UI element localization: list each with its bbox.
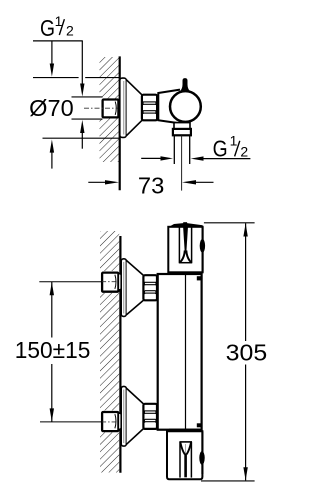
dim 305 arrow up <box>243 223 247 236</box>
lower union nipple barrel <box>119 413 122 429</box>
top knob box (front view) <box>168 227 202 272</box>
bottom knob blade left line <box>179 442 181 478</box>
dim 305 line lower segment <box>245 365 247 481</box>
hex nut (top view) <box>142 95 157 121</box>
outlet collar nut (top view) <box>173 129 191 135</box>
arrowhead down G 1/2 to pipe top <box>80 84 84 97</box>
Ø70 upper arrow (down) <box>51 41 53 64</box>
dim 150±15 line lower segment <box>51 364 53 422</box>
G 1/2 right label arrow right side <box>191 156 204 160</box>
bottom knob box (front view) <box>167 431 202 479</box>
lower escutcheon highlight line <box>123 390 125 443</box>
lower escutcheon flange (front view) <box>121 386 126 446</box>
top knob grip foot baseline <box>179 262 192 264</box>
dim 73 left arrow <box>88 181 105 183</box>
wall hatch (front view) <box>100 231 119 473</box>
outlet pipe centerline (top view) <box>181 136 183 191</box>
dim 150±15 arrow up <box>50 282 54 295</box>
bottom knob blade stem (black) <box>184 453 187 477</box>
pipe thread lower arrow (up) <box>81 133 83 149</box>
dim 305 line upper segment <box>245 223 247 341</box>
G 1/2 right label arrow left side <box>141 157 161 159</box>
top knob face center nub <box>183 222 187 224</box>
upper hex nut (front view) <box>143 275 157 300</box>
svg-text:150±15: 150±15 <box>15 337 91 363</box>
wall face line (top view) <box>119 56 121 190</box>
svg-text:2: 2 <box>240 144 248 160</box>
top knob grip blade right line <box>191 227 193 263</box>
svg-text:Ø70: Ø70 <box>29 95 73 121</box>
Ø70 lower arrow (up) <box>51 152 53 169</box>
bottom knob blade top edge <box>179 441 192 443</box>
top knob right edge restroke <box>202 227 204 272</box>
top knob grip bell curve left <box>180 251 185 263</box>
outlet pipe lines (top view) <box>173 136 175 165</box>
body stop button upper (black square) <box>197 276 201 280</box>
dim extension line Ø70 bottom <box>43 137 120 139</box>
dim extension line Ø70 top <box>33 77 79 79</box>
upper escutcheon flange (front view) <box>121 259 126 317</box>
bottom knob right edge restroke <box>201 432 203 475</box>
upper escutcheon highlight line <box>123 262 125 314</box>
body inlet trapezoid (top view) <box>158 90 180 124</box>
pipe thread lower edge line (top view) <box>72 118 103 120</box>
body mid silhouette line <box>185 275 187 429</box>
socket inner arc (top view) <box>115 102 116 115</box>
svg-text:2: 2 <box>66 22 74 38</box>
svg-text:1: 1 <box>230 133 238 149</box>
hatch clearance lower socket <box>100 410 120 432</box>
lower socket inner arc <box>115 414 116 428</box>
svg-text:G: G <box>40 15 55 41</box>
svg-text:G: G <box>213 135 228 161</box>
body stop button lower (black square) <box>197 423 201 427</box>
upper union centerline <box>39 281 102 283</box>
bottom knob safestop button (dark ellipse) <box>199 451 204 465</box>
upper escutcheon cone <box>127 261 144 315</box>
top knob grip blade left line <box>178 227 180 263</box>
wall face line (front view) <box>119 236 121 473</box>
pipe hole through wall (top view) <box>98 97 104 119</box>
dim 305 arrow down <box>243 467 247 480</box>
bottom knob funnel curve left <box>180 443 184 455</box>
body block (front view) <box>158 274 202 430</box>
escutcheon flange (top view) <box>120 78 127 137</box>
knob stub on body (top view) <box>180 78 189 91</box>
top knob top face (dark) <box>168 223 202 227</box>
lower escutcheon cone <box>127 388 144 444</box>
bottom knob funnel center hairline <box>185 444 187 454</box>
outlet neck (top view) <box>174 123 190 129</box>
dim 150±15 line upper segment <box>51 282 53 338</box>
top knob grip bell curve right <box>186 251 191 263</box>
upper union socket (front view) <box>102 273 118 292</box>
lower union centerline <box>40 421 102 423</box>
leader underline of G 1/2 top <box>33 40 83 42</box>
upper socket inner arc <box>115 275 116 289</box>
bottom knob top face band (dark) <box>167 429 202 432</box>
lower hex nut (front view) <box>143 404 157 429</box>
pipe thread upper edge line (top view) <box>72 96 103 98</box>
svg-text:305: 305 <box>226 340 268 366</box>
hatch clearance upper socket <box>100 271 120 293</box>
escutcheon cone (top view) <box>127 80 142 136</box>
wall union socket (top view) <box>103 100 119 118</box>
upper union nipple barrel <box>119 274 122 290</box>
wall hatch (top view) <box>100 57 120 162</box>
thermostat body circle (top view) <box>170 91 201 122</box>
top knob safestop button (dark ellipse) <box>200 239 205 253</box>
dim 305 extension line top <box>204 222 255 224</box>
union nipple barrel (top view) <box>119 101 122 116</box>
top knob grip dark stem <box>183 227 188 252</box>
bottom knob funnel curve right <box>187 443 191 455</box>
dim 305 extension line bottom <box>201 480 255 482</box>
bottom knob blade right line <box>190 442 192 478</box>
centerline dash-dot (top view) <box>84 107 118 109</box>
leader drop line of G 1/2 top <box>81 41 83 84</box>
lower union socket (front view) <box>102 412 118 431</box>
dim 73 right arrow <box>182 180 196 184</box>
escutcheon highlight line (top view) <box>123 81 125 135</box>
dim 150±15 arrow down <box>50 408 54 421</box>
svg-text:73: 73 <box>138 172 164 198</box>
